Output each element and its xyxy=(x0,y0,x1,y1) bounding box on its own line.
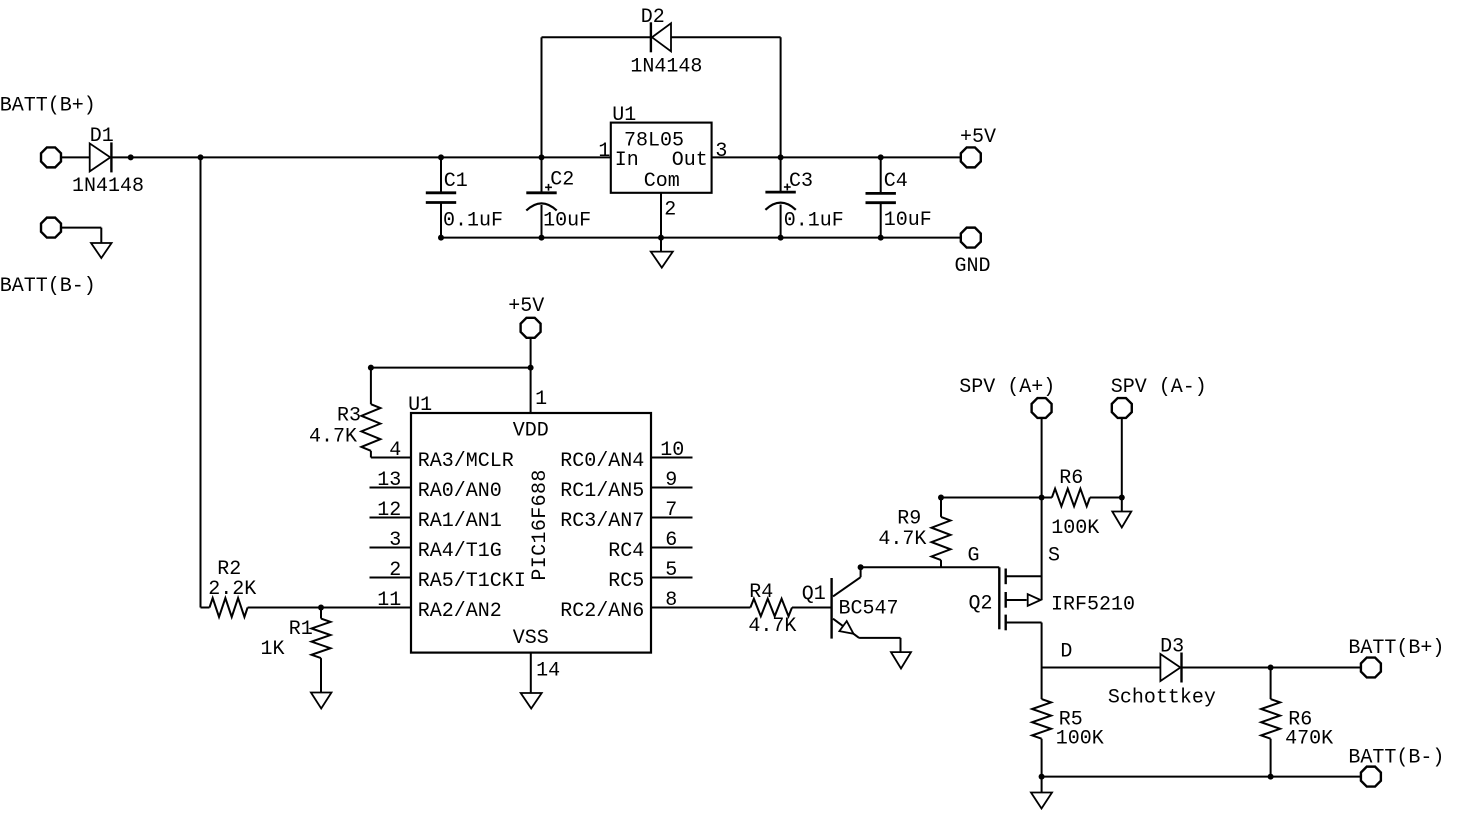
svg-text:C3: C3 xyxy=(789,170,813,193)
svg-text:RA0/AN0: RA0/AN0 xyxy=(418,480,502,503)
svg-text:RC0/AN4: RC0/AN4 xyxy=(560,450,644,473)
svg-text:BC547: BC547 xyxy=(839,598,899,621)
svg-text:14: 14 xyxy=(536,659,560,682)
svg-text:1: 1 xyxy=(535,388,547,411)
svg-text:RC5: RC5 xyxy=(608,570,644,593)
svg-text:U1: U1 xyxy=(612,104,636,127)
svg-text:Com: Com xyxy=(644,170,680,193)
svg-text:BATT(B-): BATT(B-) xyxy=(1348,746,1444,769)
svg-text:SPV (A-): SPV (A-) xyxy=(1111,376,1207,399)
svg-text:RA1/AN1: RA1/AN1 xyxy=(418,510,502,533)
svg-text:RC3/AN7: RC3/AN7 xyxy=(560,510,644,533)
svg-text:+5V: +5V xyxy=(960,126,996,149)
svg-text:C1: C1 xyxy=(444,170,468,193)
svg-text:0.1uF: 0.1uF xyxy=(784,209,844,232)
svg-text:RA5/T1CKI: RA5/T1CKI xyxy=(418,570,526,593)
svg-text:4.7K: 4.7K xyxy=(878,528,926,551)
svg-text:Q2: Q2 xyxy=(969,593,993,616)
svg-text:G: G xyxy=(968,545,980,568)
svg-text:RC1/AN5: RC1/AN5 xyxy=(560,480,644,503)
svg-text:PIC16F688: PIC16F688 xyxy=(529,470,552,581)
svg-text:S: S xyxy=(1048,545,1060,568)
svg-text:2.2K: 2.2K xyxy=(208,578,256,601)
svg-text:1N4148: 1N4148 xyxy=(630,56,702,79)
svg-text:VSS: VSS xyxy=(513,627,549,650)
svg-text:R6: R6 xyxy=(1059,467,1083,490)
svg-text:D2: D2 xyxy=(641,6,665,29)
svg-text:GND: GND xyxy=(955,255,991,278)
svg-text:Out: Out xyxy=(672,149,708,172)
svg-text:C4: C4 xyxy=(884,170,908,193)
svg-text:VDD: VDD xyxy=(513,420,549,443)
svg-text:3: 3 xyxy=(715,140,727,163)
svg-text:U1: U1 xyxy=(408,394,432,417)
svg-text:SPV (A+): SPV (A+) xyxy=(959,376,1055,399)
svg-text:4: 4 xyxy=(389,439,401,462)
svg-text:D1: D1 xyxy=(90,125,114,148)
svg-text:RA3/MCLR: RA3/MCLR xyxy=(418,450,514,473)
svg-text:R4: R4 xyxy=(749,581,773,604)
svg-text:RC4: RC4 xyxy=(608,540,644,563)
svg-text:4.7K: 4.7K xyxy=(748,615,796,638)
svg-text:10uF: 10uF xyxy=(543,209,591,232)
svg-text:BATT(B+): BATT(B+) xyxy=(0,95,96,118)
svg-text:C2: C2 xyxy=(550,168,574,191)
svg-text:RC2/AN6: RC2/AN6 xyxy=(560,600,644,623)
svg-text:BATT(B-): BATT(B-) xyxy=(0,275,96,298)
svg-text:IRF5210: IRF5210 xyxy=(1051,594,1135,617)
svg-text:D: D xyxy=(1060,640,1072,663)
svg-text:1N4148: 1N4148 xyxy=(72,175,144,198)
svg-text:R1: R1 xyxy=(289,618,313,641)
svg-text:0.1uF: 0.1uF xyxy=(443,209,503,232)
svg-text:D3: D3 xyxy=(1160,636,1184,659)
svg-text:1: 1 xyxy=(598,140,610,163)
svg-text:In: In xyxy=(615,149,639,172)
svg-text:470K: 470K xyxy=(1285,727,1333,750)
svg-text:BATT(B+): BATT(B+) xyxy=(1348,637,1444,660)
svg-text:1K: 1K xyxy=(261,638,285,661)
svg-text:R3: R3 xyxy=(337,405,361,428)
svg-text:RA4/T1G: RA4/T1G xyxy=(418,540,502,563)
svg-text:Schottkey: Schottkey xyxy=(1108,686,1216,709)
svg-text:+5V: +5V xyxy=(508,295,544,318)
svg-text:100K: 100K xyxy=(1051,517,1099,540)
svg-text:Q1: Q1 xyxy=(802,583,826,606)
svg-text:100K: 100K xyxy=(1056,727,1104,750)
svg-text:4.7K: 4.7K xyxy=(309,426,357,449)
svg-text:2: 2 xyxy=(664,198,676,221)
svg-text:RA2/AN2: RA2/AN2 xyxy=(418,600,502,623)
svg-text:10uF: 10uF xyxy=(884,209,932,232)
